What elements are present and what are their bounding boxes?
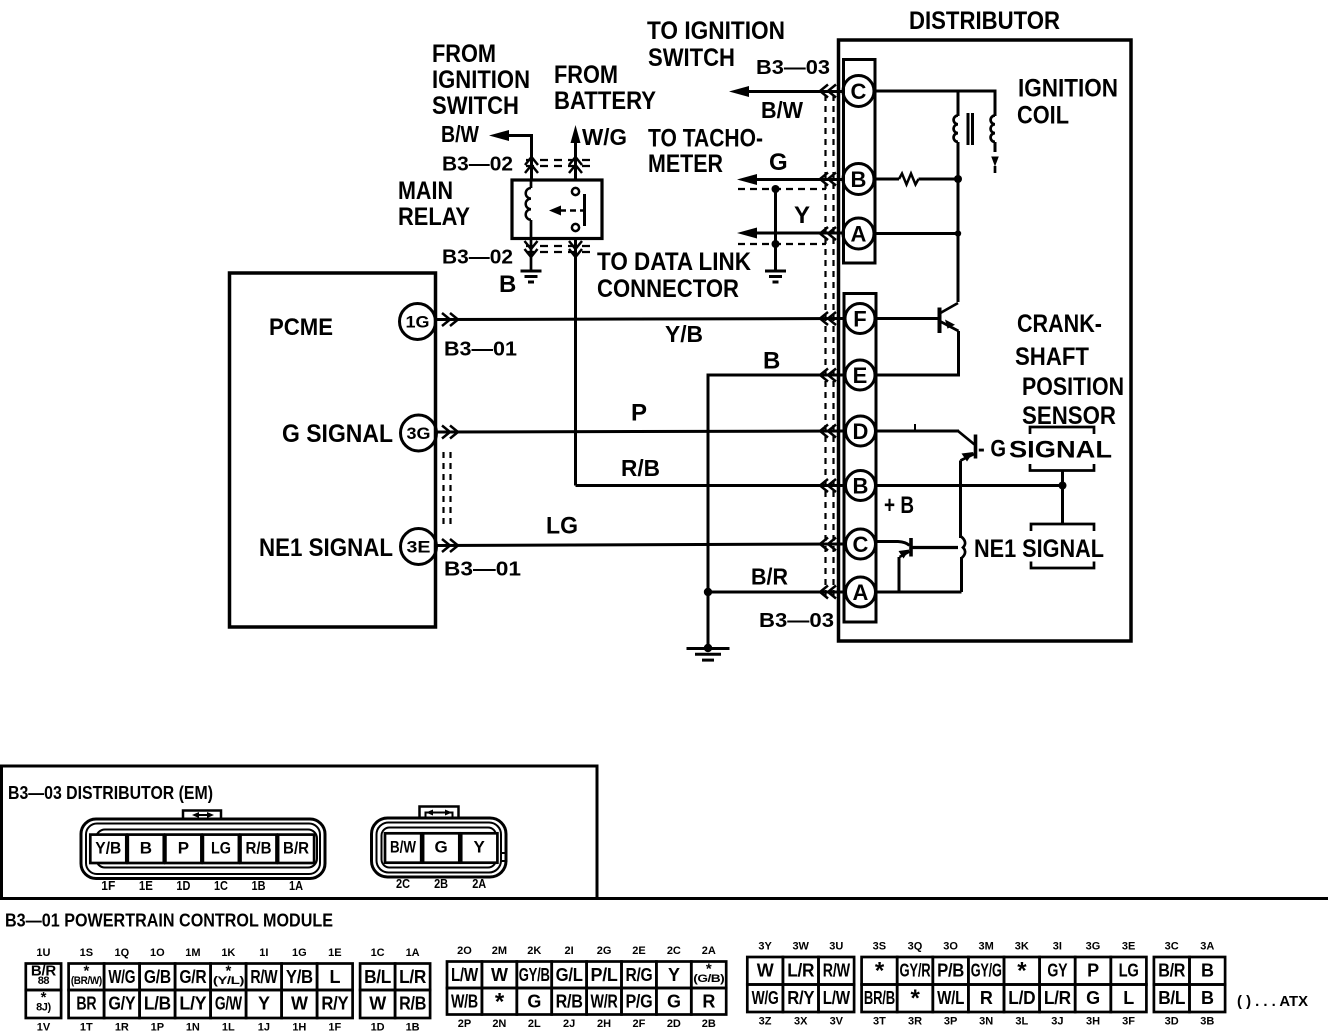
connector chevrons at PCME pin 1G — [442, 313, 458, 326]
connector B3-03 harness dashed lines — [824, 95, 826, 598]
svg-text:3L: 3L — [1015, 1015, 1028, 1027]
svg-text:2B: 2B — [434, 876, 448, 891]
wire B from E down to ground — [708, 375, 845, 648]
wire D to G-sensor transistor — [876, 430, 959, 433]
svg-text:3B: 3B — [1200, 1015, 1214, 1027]
svg-text:1V: 1V — [37, 1021, 51, 1033]
svg-text:B: B — [499, 271, 516, 298]
pin column 1A/1B of B3-01 block 1 — [395, 964, 430, 991]
shield dashed line of Y wire — [738, 243, 826, 245]
svg-text:3Q: 3Q — [908, 940, 923, 952]
svg-text:G: G — [769, 149, 788, 176]
pin 1G (PCME) — [400, 304, 436, 340]
B3-03 section box — [2, 766, 598, 899]
svg-text:2D: 2D — [667, 1018, 681, 1030]
pin column 3U/3V of B3-01 block 3 — [819, 957, 855, 985]
svg-text:3O: 3O — [943, 940, 958, 952]
pin column 3G/3H of B3-01 block 3 — [1075, 957, 1111, 985]
junction node on Y shield — [772, 240, 780, 248]
pin column 3E/3F of B3-01 block 3 — [1111, 957, 1147, 985]
svg-text:*: * — [875, 957, 885, 984]
connector drawing B3-03 3-pin shell — [372, 818, 507, 877]
pin 3G (PCME) — [401, 415, 437, 451]
svg-text:R/W: R/W — [823, 961, 850, 981]
relay contact blade — [583, 194, 586, 226]
connector pin cell 1F wire Y/B — [90, 835, 126, 863]
svg-text:TO DATA LINK: TO DATA LINK — [597, 248, 751, 276]
svg-text:P/L: P/L — [591, 965, 618, 985]
svg-text:1P: 1P — [151, 1021, 164, 1033]
G SIGNAL pickup coil bracket bottom — [1030, 464, 1094, 471]
svg-text:1J: 1J — [258, 1021, 270, 1033]
svg-text:2J: 2J — [563, 1018, 575, 1030]
svg-text:1I: 1I — [259, 947, 268, 959]
wire B/R to A — [708, 591, 846, 594]
svg-text:1F: 1F — [328, 1021, 341, 1033]
pin F (distributor 1F) — [845, 304, 875, 334]
svg-text:2L: 2L — [528, 1018, 541, 1030]
svg-text:1G: 1G — [292, 947, 307, 959]
svg-text:R: R — [980, 988, 993, 1008]
pin column 1C/1D of B3-01 block 1 — [360, 964, 395, 991]
svg-text:2A: 2A — [702, 945, 716, 957]
pin column 1M/1N of B3-01 block 1 — [175, 964, 211, 991]
pin column 3I/3J of B3-01 block 3 — [1040, 957, 1076, 985]
svg-text:3R: 3R — [908, 1015, 922, 1027]
wire C to Q3 base — [876, 542, 910, 546]
wire node B to node A — [957, 179, 960, 234]
svg-text:L/D: L/D — [1008, 988, 1035, 1008]
connector pin cell 2A wire Y — [461, 833, 497, 862]
connector drawing B3-03 3-pin lock tab — [420, 807, 459, 819]
NE1 SIGNAL pickup coil bracket bottom — [1031, 562, 1094, 569]
pin B (distributor 2B) — [843, 164, 874, 195]
svg-text:1D: 1D — [176, 878, 190, 893]
junction node at primary/B — [954, 175, 962, 183]
wire Q1 emitter to E — [875, 331, 959, 375]
wire Y to distributor A — [744, 232, 843, 235]
connector pin cell 2C wire B/W — [385, 833, 421, 862]
svg-text:B3—03: B3—03 — [756, 57, 830, 79]
svg-text:LG: LG — [1119, 961, 1139, 981]
svg-text:R/Y: R/Y — [321, 994, 348, 1014]
svg-text:C: C — [851, 79, 867, 104]
pin column 1E/1F of B3-01 block 1 — [317, 964, 353, 991]
junction node at A — [955, 230, 961, 236]
svg-text:3S: 3S — [873, 940, 886, 952]
junction node on G shield — [772, 185, 780, 193]
pin column 1G/1H of B3-01 block 1 — [282, 964, 318, 991]
shield drain wire — [774, 189, 777, 271]
svg-text:GY/B: GY/B — [519, 965, 550, 985]
svg-text:GY: GY — [1047, 961, 1067, 981]
svg-text:1G: 1G — [406, 313, 430, 332]
connector shell group FEDBCA — [844, 294, 876, 623]
svg-text:POSITION: POSITION — [1022, 373, 1124, 401]
connector drawing B3-03 6-pin lock tab — [183, 811, 221, 820]
svg-text:R/W: R/W — [250, 967, 277, 987]
pin A (distributor 1A) — [846, 577, 876, 607]
svg-text:B: B — [851, 167, 867, 192]
svg-text:3F: 3F — [1122, 1015, 1135, 1027]
svg-text:B/W: B/W — [761, 97, 803, 123]
svg-text:(Y/L): (Y/L) — [213, 975, 245, 987]
ground (main) — [687, 647, 730, 650]
svg-text:*: * — [910, 985, 920, 1012]
resistor (ballast) on B wire — [874, 178, 899, 181]
svg-text:B/W: B/W — [390, 838, 417, 857]
shield dashed line of G wire — [738, 188, 826, 190]
svg-text:1B: 1B — [406, 1021, 420, 1033]
NE1 node brace — [961, 537, 965, 559]
svg-text:E: E — [853, 363, 868, 388]
svg-text:1S: 1S — [80, 947, 93, 959]
connector chevrons at pin B2 — [820, 479, 836, 492]
svg-text:LG: LG — [211, 839, 231, 858]
svg-text:A: A — [853, 580, 869, 605]
svg-text:2G: 2G — [597, 945, 612, 957]
svg-text:LG: LG — [546, 512, 578, 539]
transistor Q1 igniter base wire from F — [875, 317, 939, 320]
svg-text:2K: 2K — [527, 945, 541, 957]
svg-text:G: G — [667, 992, 681, 1012]
connector chevrons at pin C — [820, 85, 836, 98]
svg-text:G SIGNAL: G SIGNAL — [282, 420, 393, 448]
svg-text:3G: 3G — [1086, 940, 1101, 952]
pin column 2M/2N of B3-01 block 2 — [482, 962, 517, 989]
pin A (distributor 2A) — [843, 218, 874, 249]
connector pin cell 1E wire B — [128, 835, 164, 863]
svg-text:2A: 2A — [472, 876, 487, 891]
svg-text:B3—01 POWERTRAIN CONTROL MODUL: B3—01 POWERTRAIN CONTROL MODULE — [5, 911, 333, 931]
svg-text:3X: 3X — [794, 1015, 808, 1027]
wire G to tachometer — [744, 178, 843, 181]
svg-text:A: A — [851, 221, 867, 246]
connector B3-01 harness dashed lines — [442, 452, 444, 528]
svg-text:1H: 1H — [292, 1021, 306, 1033]
svg-text:L: L — [1123, 988, 1134, 1008]
svg-text:R/B: R/B — [556, 992, 583, 1012]
svg-text:METER: METER — [648, 150, 723, 178]
pin D (distributor 1D) — [846, 416, 876, 446]
svg-text:2C: 2C — [396, 876, 411, 891]
transistor Q1 collector — [940, 303, 959, 314]
svg-text:G: G — [1086, 988, 1100, 1008]
connector chevrons at pin B — [820, 173, 836, 186]
pin 3E (PCME) — [401, 529, 437, 565]
svg-text:GY/G: GY/G — [971, 961, 1002, 981]
connector chevrons at PCME pin 3G — [442, 426, 458, 439]
svg-text:2H: 2H — [597, 1018, 611, 1030]
wire junction down to igniter collector — [957, 234, 960, 303]
svg-text:2O: 2O — [457, 945, 472, 957]
svg-text:L/R: L/R — [787, 961, 814, 981]
svg-text:G: G — [434, 838, 447, 857]
distributor box — [839, 40, 1132, 641]
svg-text:1M: 1M — [185, 947, 200, 959]
svg-text:B/L: B/L — [364, 967, 391, 987]
pin column 2A/2B of B3-01 block 2 — [691, 962, 726, 989]
svg-text:W/L: W/L — [937, 988, 964, 1008]
svg-text:3V: 3V — [830, 1015, 844, 1027]
section divider line — [0, 897, 1328, 900]
svg-text:Y/B: Y/B — [665, 321, 703, 347]
pin column 3M/3N of B3-01 block 3 — [968, 957, 1004, 985]
svg-text:1D: 1D — [371, 1021, 385, 1033]
svg-text:3M: 3M — [979, 940, 994, 952]
svg-text:IGNITION: IGNITION — [432, 66, 530, 94]
svg-text:SIGNAL: SIGNAL — [1009, 436, 1112, 463]
svg-text:P: P — [178, 839, 189, 858]
connector pin cell 1B wire R/B — [241, 835, 277, 863]
transistor Q3 emitter with arrow — [900, 552, 910, 558]
pin B (distributor 1B) — [846, 471, 876, 501]
svg-text:3I: 3I — [1053, 940, 1062, 952]
svg-text:3E: 3E — [1122, 940, 1135, 952]
relay contact terminals — [572, 188, 579, 195]
svg-text:*: * — [1017, 957, 1027, 984]
svg-text:2I: 2I — [565, 945, 574, 957]
svg-text:1F: 1F — [101, 878, 115, 893]
connector chevrons at pin F — [820, 312, 836, 325]
connector 3-pin side notch — [501, 853, 507, 861]
svg-text:R/B: R/B — [399, 994, 426, 1014]
svg-text:G/L: G/L — [556, 965, 583, 985]
ignition coil primary winding — [954, 116, 958, 142]
connector shell group CBA — [844, 60, 876, 264]
pin column 2E/2F of B3-01 block 2 — [622, 962, 657, 989]
pin column 2I/2J of B3-01 block 2 — [552, 962, 587, 989]
svg-text:+ B: + B — [884, 492, 914, 519]
wire Q2 emitter down to A net — [959, 461, 962, 539]
svg-text:1K: 1K — [221, 947, 235, 959]
transistor Q1 base bar — [938, 308, 942, 334]
svg-text:W/G: W/G — [108, 967, 135, 987]
svg-text:L/B: L/B — [144, 994, 171, 1014]
wire B/W from relay to ignition switch — [496, 136, 532, 181]
G SIGNAL pickup coil bracket top — [1030, 427, 1094, 434]
pin column 1S/1T of B3-01 block 1 — [69, 964, 105, 991]
svg-text:PCME: PCME — [269, 314, 333, 341]
svg-text:1A: 1A — [289, 878, 304, 893]
svg-text:COIL: COIL — [1017, 102, 1069, 130]
svg-text:W/R: W/R — [591, 992, 618, 1012]
wire relay coil to ground — [530, 239, 533, 272]
svg-text:NE1 SIGNAL: NE1 SIGNAL — [259, 534, 393, 562]
connector pin cell 1C wire LG — [203, 835, 239, 863]
svg-text:CRANK-: CRANK- — [1017, 310, 1102, 338]
svg-text:B/W: B/W — [441, 121, 479, 147]
wire W/G from battery — [574, 133, 577, 180]
svg-text:3C: 3C — [1165, 940, 1179, 952]
svg-text:W/G: W/G — [582, 124, 627, 150]
svg-text:(G/B): (G/B) — [693, 973, 725, 985]
wire Q3 emitter down to A wire — [898, 557, 901, 592]
svg-text:3P: 3P — [944, 1015, 957, 1027]
wire A to sensor common — [876, 591, 962, 594]
transistor Q2 emitter with arrow — [961, 454, 975, 461]
wire W/G relay output down to R/B — [574, 239, 577, 486]
svg-text:3U: 3U — [829, 940, 843, 952]
svg-text:B3—02: B3—02 — [442, 246, 513, 268]
svg-text:G/Y: G/Y — [108, 994, 135, 1014]
svg-text:FROM: FROM — [554, 61, 618, 89]
svg-text:P/G: P/G — [625, 992, 652, 1012]
svg-text:3J: 3J — [1051, 1015, 1063, 1027]
svg-text:2P: 2P — [458, 1018, 471, 1030]
svg-text:L/R: L/R — [399, 967, 426, 987]
connector chevrons at pin A — [820, 227, 836, 240]
svg-text:B: B — [763, 347, 780, 374]
pin C (distributor 2C) — [843, 76, 874, 107]
svg-text:3N: 3N — [979, 1015, 993, 1027]
wire LG from 3E to C — [437, 544, 846, 546]
pin column 3Y/3Z of B3-01 block 3 — [747, 957, 783, 985]
svg-text:B: B — [1201, 961, 1214, 981]
connector pin cell 1A wire B/R — [278, 835, 314, 863]
svg-text:B3—01: B3—01 — [444, 338, 517, 360]
svg-text:BR/B: BR/B — [864, 988, 895, 1008]
pin column 1I/1J of B3-01 block 1 — [246, 964, 282, 991]
transistor Q2 (G signal) collector — [958, 431, 975, 445]
svg-text:3Y: 3Y — [758, 940, 772, 952]
svg-text:P: P — [631, 399, 647, 426]
pin column 2O/2P of B3-01 block 2 — [447, 962, 482, 989]
svg-text:1E: 1E — [139, 878, 153, 893]
pin column 1U/1V of B3-01 block 1 — [26, 964, 61, 991]
transistor Q3 base bar — [909, 538, 913, 557]
junction node +B — [1059, 482, 1067, 490]
svg-text:1R: 1R — [115, 1021, 129, 1033]
connector chevrons at pin C2 — [820, 538, 836, 551]
pin column 2C/2D of B3-01 block 2 — [656, 962, 691, 989]
svg-text:B: B — [1201, 988, 1214, 1008]
svg-text:R/Y: R/Y — [787, 988, 814, 1008]
transistor Q2 base bar — [974, 435, 978, 459]
wire B (+B) to sensors — [876, 484, 1063, 487]
svg-text:Y: Y — [474, 838, 486, 857]
svg-text:GY/R: GY/R — [900, 961, 931, 981]
transistor Q3 collector wire to NE1 node — [911, 546, 958, 549]
pin C (distributor 1C) — [846, 529, 876, 559]
wire P from 3G to D — [437, 431, 846, 432]
svg-text:G: G — [527, 992, 541, 1012]
svg-text:1E: 1E — [328, 947, 341, 959]
svg-text:SWITCH: SWITCH — [648, 44, 735, 72]
svg-text:L: L — [329, 967, 340, 987]
svg-text:(BR/W): (BR/W) — [71, 975, 103, 987]
svg-text:W: W — [757, 961, 774, 981]
relay coil — [530, 180, 533, 188]
svg-text:Y/B: Y/B — [286, 967, 313, 987]
connector chevrons at pin A2 — [820, 586, 836, 599]
svg-text:2E: 2E — [632, 945, 645, 957]
svg-text:Y: Y — [794, 202, 810, 229]
svg-text:B/R: B/R — [283, 839, 309, 858]
svg-text:3G: 3G — [407, 424, 431, 443]
wire C to coil top — [874, 91, 995, 116]
NE1 SIGNAL pickup coil bracket top — [1031, 524, 1094, 531]
svg-text:P: P — [1087, 961, 1099, 981]
pin column 1K/1L of B3-01 block 1 — [211, 964, 247, 991]
svg-text:- G: - G — [978, 435, 1006, 462]
svg-text:F: F — [853, 306, 866, 331]
svg-text:W/G: W/G — [752, 988, 779, 1008]
svg-text:TO IGNITION: TO IGNITION — [647, 17, 785, 45]
connector B3-02 dashed links lower — [526, 245, 591, 247]
svg-text:3D: 3D — [1165, 1015, 1179, 1027]
svg-text:2C: 2C — [667, 945, 681, 957]
ground (relay) — [521, 270, 542, 273]
connector pin cell 1D wire P — [165, 835, 201, 863]
svg-text:B3—03 DISTRIBUTOR (EM): B3—03 DISTRIBUTOR (EM) — [8, 783, 213, 803]
svg-text:L/Y: L/Y — [179, 994, 206, 1014]
pin E (distributor 1E) — [845, 360, 875, 390]
svg-text:W: W — [491, 965, 508, 985]
svg-text:B/L: B/L — [1158, 988, 1185, 1008]
svg-text:FROM: FROM — [432, 40, 496, 68]
ground (shield drain) — [765, 270, 786, 273]
svg-text:R/B: R/B — [621, 455, 660, 481]
svg-text:B/R: B/R — [1158, 961, 1185, 981]
svg-text:3Z: 3Z — [759, 1015, 772, 1027]
wire A to junction — [874, 232, 958, 235]
svg-text:3W: 3W — [792, 940, 809, 952]
connector B3-02 chevrons lower — [525, 241, 538, 257]
svg-text:1B: 1B — [252, 878, 266, 893]
svg-text:TO TACHO-: TO TACHO- — [648, 125, 763, 153]
pin column 3Q/3R of B3-01 block 3 — [897, 957, 933, 985]
svg-text:R/G: R/G — [625, 965, 652, 985]
svg-text:DISTRIBUTOR: DISTRIBUTOR — [909, 7, 1060, 35]
ignition coil core — [967, 113, 970, 145]
wire B/W to ignition switch — [736, 90, 843, 93]
wire Y/B from 1G to F — [436, 319, 845, 320]
PCME box — [230, 273, 436, 627]
svg-text:2B: 2B — [702, 1018, 716, 1030]
secondary high-tension lead — [994, 142, 997, 152]
svg-text:NE1 SIGNAL: NE1 SIGNAL — [974, 535, 1104, 563]
svg-text:W: W — [369, 994, 386, 1014]
svg-text:1N: 1N — [186, 1021, 200, 1033]
svg-text:Y/B: Y/B — [95, 839, 121, 858]
svg-text:88: 88 — [38, 975, 50, 987]
svg-text:B3—01: B3—01 — [444, 558, 521, 580]
main relay box — [512, 180, 602, 239]
pin column 3S/3T of B3-01 block 3 — [862, 957, 898, 985]
connector B3-02 dashed links upper — [526, 159, 591, 161]
svg-text:IGNITION: IGNITION — [1018, 75, 1118, 103]
junction node at ground — [704, 644, 712, 652]
pin column 3K/3L of B3-01 block 3 — [1004, 957, 1040, 985]
svg-text:G/B: G/B — [144, 967, 171, 987]
connector chevrons at pin E — [820, 369, 836, 382]
svg-text:*: * — [495, 988, 505, 1015]
svg-text:SHAFT: SHAFT — [1015, 343, 1089, 371]
svg-text:W: W — [291, 994, 308, 1014]
ignition coil secondary winding — [991, 116, 995, 142]
svg-text:L/W: L/W — [451, 965, 478, 985]
connector pin cell 2B wire G — [423, 833, 459, 862]
svg-text:1O: 1O — [150, 947, 165, 959]
pin column 2G/2H of B3-01 block 2 — [587, 962, 622, 989]
svg-text:P/B: P/B — [937, 961, 964, 981]
svg-text:B/R: B/R — [751, 564, 788, 590]
svg-text:1Q: 1Q — [115, 947, 130, 959]
svg-text:BATTERY: BATTERY — [554, 87, 656, 115]
svg-text:3K: 3K — [1015, 940, 1029, 952]
svg-text:B: B — [853, 473, 869, 498]
